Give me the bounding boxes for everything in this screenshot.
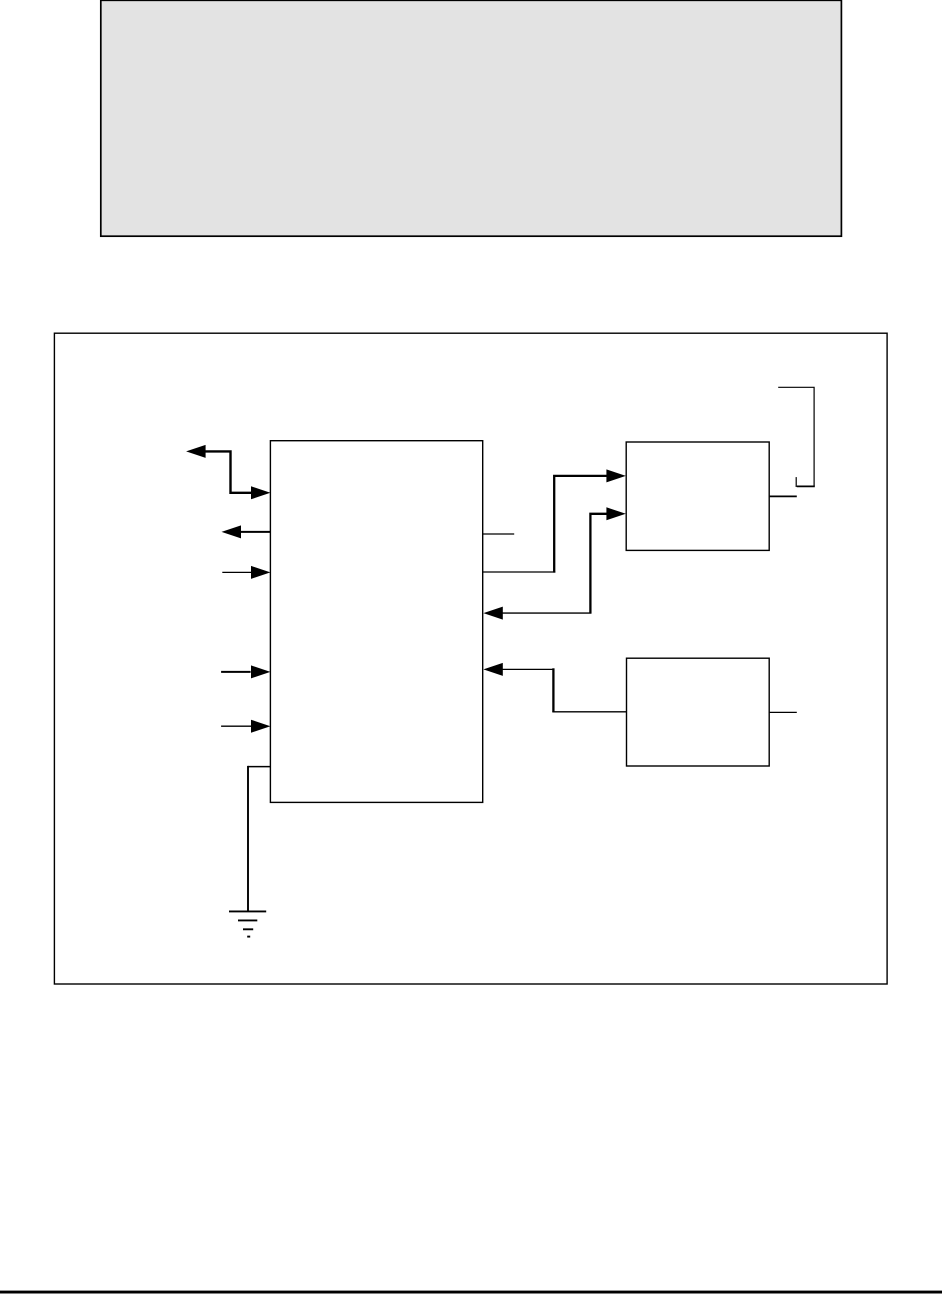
hook wire: [778, 387, 814, 486]
wire B2 thin: [502, 612, 592, 614]
wire C thick vertical: [552, 668, 554, 712]
block U2: [626, 442, 769, 550]
ground bar 4: [247, 936, 250, 938]
arrow in A4 head: [251, 665, 270, 678]
arrow out A2 head: [222, 525, 242, 538]
wire A2: [240, 531, 270, 533]
arrow into U1 right upper: [483, 607, 502, 620]
arrow into U2 pin2: [606, 507, 625, 520]
stub right of U1: [483, 533, 514, 535]
hook tick: [795, 477, 797, 487]
wire A3: [222, 571, 251, 573]
footer rule: [0, 1291, 942, 1294]
main block U1: [270, 441, 482, 803]
arrow in A1 head: [251, 486, 270, 499]
wire A1 zigzag: [205, 451, 252, 492]
wire A5: [221, 725, 252, 727]
arrow in A3 head: [251, 566, 270, 579]
figure frame: [54, 333, 887, 984]
wire B1 thick: [554, 476, 607, 573]
ground bar 3: [243, 928, 253, 930]
wire C thin right: [552, 711, 627, 713]
stub right of U2: [770, 495, 797, 497]
block U3: [627, 658, 770, 766]
arrow in A5 head: [251, 720, 270, 733]
wire C thin left: [502, 668, 554, 670]
wire B1 thin: [483, 571, 555, 573]
arrow into U1 right lower: [483, 663, 502, 676]
arrow into U2 pin1: [606, 469, 625, 482]
ground bar 2: [238, 919, 257, 921]
stub right of U3: [770, 711, 797, 713]
arrow out A1 head: [186, 445, 206, 458]
ground bar 1: [229, 910, 266, 912]
ground stub wire: [248, 766, 271, 768]
wire A4: [221, 671, 251, 673]
gray note box: [101, 0, 842, 236]
hook bottom segment: [797, 485, 815, 487]
wire B2 thick: [590, 514, 607, 613]
ground wire vertical: [247, 766, 249, 911]
